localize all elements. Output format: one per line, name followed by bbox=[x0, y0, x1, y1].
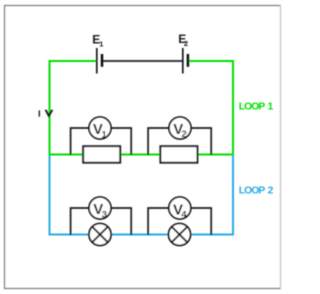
svg-text:1: 1 bbox=[268, 102, 274, 113]
svg-text:LOOP: LOOP bbox=[239, 102, 266, 113]
svg-text:4: 4 bbox=[181, 210, 187, 221]
svg-text:3: 3 bbox=[102, 209, 107, 220]
svg-text:1: 1 bbox=[99, 39, 103, 48]
svg-text:1: 1 bbox=[102, 129, 108, 140]
svg-text:LOOP: LOOP bbox=[239, 186, 266, 197]
svg-text:2: 2 bbox=[182, 129, 187, 140]
svg-text:2: 2 bbox=[268, 186, 274, 197]
svg-text:2: 2 bbox=[184, 39, 188, 48]
